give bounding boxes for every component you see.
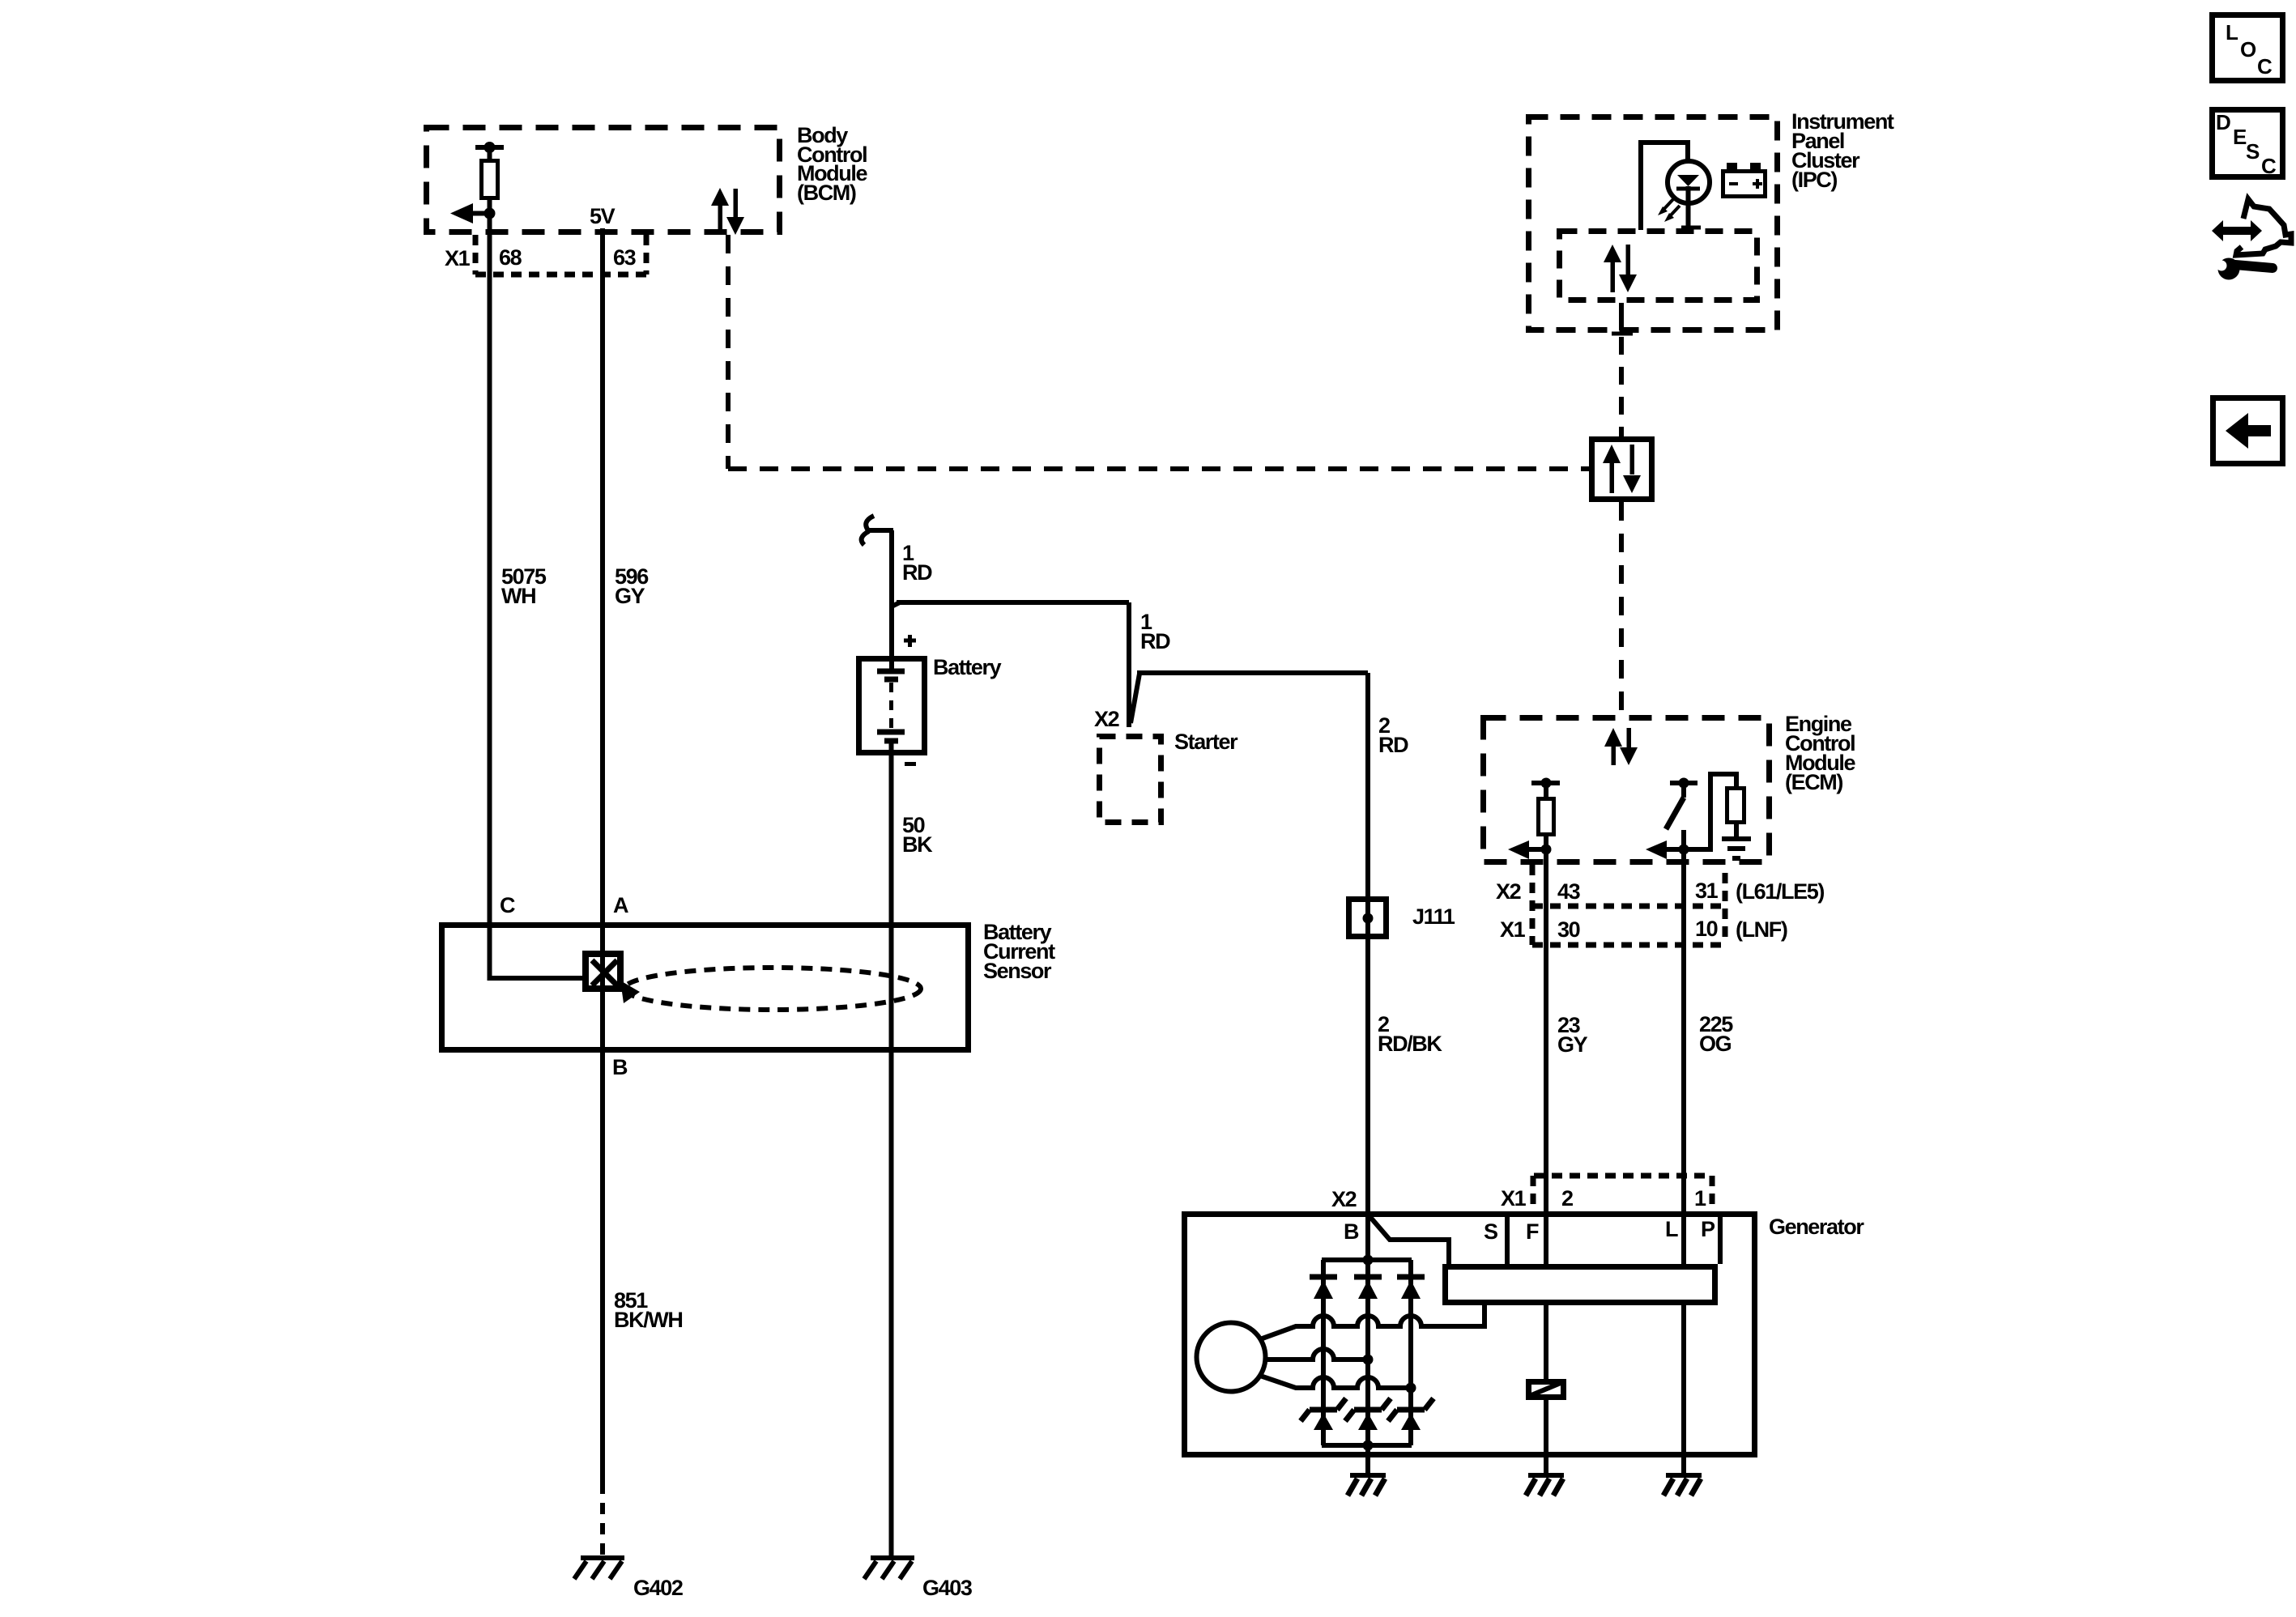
IPC box — [1529, 117, 1778, 330]
ground (generator L) — [1666, 1473, 1702, 1478]
svg-text:68: 68 — [499, 245, 522, 270]
connector X2/X1 (ECM) — [1530, 865, 1536, 945]
wire 50 BK — [889, 755, 894, 1558]
node (BCM junction) — [484, 208, 496, 219]
svg-text:(LNF): (LNF) — [1736, 917, 1787, 942]
terminal stub P — [1718, 1211, 1723, 1264]
wire (F through generator) — [1544, 1211, 1548, 1379]
svg-text:5V: 5V — [590, 204, 616, 228]
ground (generator B) — [1350, 1473, 1386, 1478]
svg-text:RD/BK: RD/BK — [1378, 1032, 1442, 1056]
svg-text:RD: RD — [902, 560, 932, 585]
svg-text:1: 1 — [1694, 1186, 1706, 1211]
comm arrows (BCM serial data) — [711, 188, 744, 235]
battery B1 — [859, 659, 925, 753]
left bridge column — [1321, 1260, 1326, 1445]
battery positive hook (fusible link) — [866, 516, 874, 530]
signal arrow (ECM left) — [1527, 847, 1546, 852]
wire (B column) — [1365, 1211, 1370, 1475]
svg-text:X2: X2 — [1331, 1187, 1357, 1211]
node (ECM right junction) — [1679, 845, 1689, 855]
ground (ECM internal) — [1722, 836, 1751, 841]
wire (resistor to junction) — [488, 200, 492, 215]
wire 596 GY — [600, 228, 605, 1483]
connector X1 (BCM) — [473, 235, 479, 274]
generator box — [1185, 1215, 1755, 1455]
wire 5075 WH — [488, 213, 492, 978]
zener D7 (right bottom) — [1397, 1407, 1425, 1413]
battery current sensor box — [442, 926, 969, 1050]
stator winding (phase 3) — [1260, 1376, 1411, 1388]
svg-text:X2: X2 — [1496, 879, 1521, 904]
svg-text:J111: J111 — [1412, 904, 1455, 929]
signal arrow (ECM right) — [1665, 847, 1684, 852]
ECM box — [1484, 718, 1770, 862]
svg-text:B: B — [612, 1055, 628, 1079]
ground (generator F) — [1528, 1473, 1564, 1478]
terminal stub S — [1505, 1211, 1510, 1264]
wire (ECM pin 43/30) — [1544, 835, 1548, 945]
stator winding (phase 1) — [1260, 1305, 1485, 1339]
svg-text:C: C — [2261, 154, 2277, 178]
terminal labels B S F L P — [1344, 1217, 1715, 1244]
resistor R1 (BCM pull-up) — [475, 145, 504, 150]
svg-text:RD: RD — [1378, 733, 1408, 757]
svg-text:X1: X1 — [1501, 1186, 1527, 1211]
resistor R3 (ECM pull-down) — [1684, 774, 1736, 849]
svg-text:RD: RD — [1140, 629, 1170, 653]
svg-text:Battery: Battery — [933, 655, 1002, 679]
vehicle data icon (car outline) — [2236, 199, 2291, 255]
serial data wire (BCM down) — [726, 235, 731, 469]
voltage regulator U1 — [1446, 1267, 1715, 1303]
minus sign (battery) — [905, 762, 916, 766]
BCM box — [427, 128, 780, 232]
LED light arrows — [1662, 199, 1680, 218]
wire (branch to starter) — [892, 602, 900, 606]
zener D5 (left bottom) — [1310, 1407, 1337, 1413]
hall element X (sensor) — [586, 954, 620, 989]
svg-text:Starter: Starter — [1174, 730, 1238, 754]
BCM label — [797, 123, 867, 205]
svg-text:BK/WH: BK/WH — [614, 1308, 682, 1332]
junction J111 — [1349, 900, 1387, 937]
svg-text:(ECM): (ECM) — [1785, 770, 1842, 794]
svg-text:43: 43 — [1557, 879, 1581, 904]
wire (sensor internal C) — [490, 976, 583, 978]
svg-text:S: S — [2246, 139, 2260, 164]
wire 1 RD (hook to battery +) — [889, 530, 894, 657]
diode D2 (left top) — [1310, 1274, 1337, 1280]
battery icon (IPC telltale) — [1723, 172, 1766, 197]
telltale LED D1 (charge indicator) — [1641, 143, 1688, 230]
svg-text:(L61/LE5): (L61/LE5) — [1736, 879, 1824, 904]
svg-text:(IPC): (IPC) — [1791, 168, 1837, 192]
serial data symbol box — [1592, 440, 1652, 500]
starter box — [1100, 737, 1161, 823]
svg-text:O: O — [2240, 37, 2256, 62]
ground G402 — [581, 1555, 624, 1560]
wire (ECM pin 31/10) — [1681, 830, 1686, 945]
wire (field coil to ground) — [1544, 1400, 1548, 1475]
svg-text:E: E — [2233, 125, 2247, 149]
wire (L below regulator) — [1681, 1305, 1686, 1475]
rectifier bridge top bar — [1322, 1257, 1412, 1262]
svg-text:D: D — [2216, 110, 2231, 134]
svg-text:L: L — [2226, 20, 2238, 45]
svg-text:BK: BK — [902, 832, 933, 857]
LOC icon — [2213, 15, 2283, 81]
right bridge column — [1408, 1260, 1413, 1445]
signal arrow (BCM output) — [471, 211, 490, 216]
svg-text:X1: X1 — [445, 246, 471, 270]
comm arrows (IPC serial data) — [1604, 245, 1637, 292]
wire 2 RD/BK — [1365, 939, 1370, 1211]
svg-text:2: 2 — [1561, 1186, 1573, 1211]
svg-text:OG: OG — [1699, 1032, 1732, 1056]
serial data wire (horizontal to gateway) — [728, 466, 1589, 471]
resistor R2 (ECM sense) — [1531, 781, 1560, 785]
svg-text:C: C — [2257, 54, 2273, 79]
ground G403 — [871, 1555, 914, 1560]
svg-text:Sensor: Sensor — [983, 959, 1052, 983]
wire 851 BK/WH — [600, 1483, 605, 1558]
svg-text:A: A — [613, 893, 628, 917]
svg-text:Generator: Generator — [1769, 1215, 1864, 1239]
rotor — [1197, 1323, 1266, 1392]
IPC label — [1791, 109, 1894, 192]
zener D6 (mid bottom) — [1354, 1407, 1382, 1413]
loop arrowhead — [620, 981, 640, 1003]
svg-text:B: B — [1344, 1219, 1359, 1244]
svg-text:G402: G402 — [633, 1576, 683, 1600]
field coil L1 — [1529, 1382, 1564, 1398]
svg-text:X2: X2 — [1094, 707, 1119, 731]
wire (B to regulator jog) — [1370, 1216, 1449, 1264]
diode D3 (mid top) — [1354, 1274, 1382, 1280]
ECM label — [1785, 712, 1855, 794]
serial data wire (gateway to ECM) — [1619, 502, 1624, 715]
svg-text:P: P — [1701, 1217, 1715, 1241]
wire (regulator tail to phase 1) — [1482, 1305, 1487, 1326]
diode D4 (right top) — [1397, 1274, 1425, 1280]
IPC inner module box — [1560, 232, 1757, 300]
wire (IPC stub) — [1619, 303, 1624, 330]
svg-text:S: S — [1484, 1219, 1497, 1244]
svg-text:GY: GY — [1557, 1032, 1588, 1057]
wire 225 OG — [1681, 945, 1686, 1211]
svg-text:X1: X1 — [1500, 917, 1526, 942]
svg-text:30: 30 — [1557, 917, 1580, 942]
svg-text:(BCM): (BCM) — [797, 181, 856, 205]
wire 2 RD — [1131, 674, 1139, 723]
svg-text:L: L — [1665, 1217, 1678, 1241]
DESC icon — [2213, 110, 2283, 177]
svg-text:G403: G403 — [922, 1576, 973, 1600]
wire (L to regulator) — [1681, 1211, 1686, 1264]
vehicle data icon (double arrow) — [2212, 220, 2262, 241]
stator winding (phase 2) — [1265, 1349, 1368, 1360]
svg-text:63: 63 — [613, 245, 637, 270]
svg-text:GY: GY — [615, 584, 645, 608]
node (ECM left junction) — [1541, 845, 1552, 855]
vehicle data icon (wrench) — [2218, 258, 2240, 280]
switch S1 (ECM L-terminal driver) — [1670, 781, 1698, 785]
svg-text:10: 10 — [1695, 917, 1718, 941]
wire 23 GY — [1544, 945, 1548, 1211]
comm arrows (ECM serial data) — [1604, 728, 1638, 765]
rectifier bridge bottom bar — [1322, 1443, 1412, 1448]
connector bracket X1 (generator) — [1534, 1173, 1712, 1179]
svg-text:31: 31 — [1695, 879, 1719, 903]
plus sign (battery) — [904, 639, 916, 643]
terminal tick (IPC) — [1612, 332, 1633, 336]
serial data wire (IPC to gateway) — [1619, 337, 1624, 436]
svg-text:WH: WH — [501, 584, 535, 608]
induction loop ellipse — [624, 968, 921, 1010]
svg-text:C: C — [500, 893, 515, 917]
back arrow icon — [2213, 398, 2283, 464]
svg-text:F: F — [1526, 1219, 1539, 1244]
